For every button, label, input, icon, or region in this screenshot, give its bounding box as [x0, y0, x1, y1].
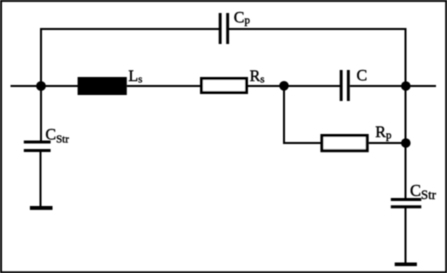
capacitor CStr (right)	[391, 198, 422, 208]
capacitor Cp	[219, 13, 229, 44]
svg-text:C: C	[357, 67, 368, 84]
node B (middle junction)	[279, 81, 289, 91]
wire left node up to top rail	[40, 28, 42, 86]
wire inductor to resistor Rs	[127, 85, 201, 87]
node C (right junction)	[401, 81, 411, 91]
node D (Rp to right rail junction)	[401, 138, 411, 148]
wire lower branch to Rp	[283, 142, 322, 144]
wire top rail left of Cp	[40, 28, 219, 30]
wire left CStr to ground	[40, 152, 42, 207]
wire left node to inductor	[41, 85, 79, 87]
ground (left)	[30, 206, 53, 210]
resistor Rs	[202, 79, 247, 93]
wire right rail down to CStr	[405, 86, 407, 199]
wire top rail down to right node	[405, 28, 407, 86]
ground (right)	[395, 263, 417, 267]
wire top rail right of Cp	[229, 28, 407, 30]
wire middle node to capacitor C	[284, 85, 340, 87]
resistor Rp	[322, 136, 367, 151]
wire Rp to right rail	[369, 142, 406, 144]
wire middle node down	[283, 86, 285, 144]
capacitor CStr (left)	[24, 141, 51, 153]
wire right CStr to ground	[405, 208, 407, 263]
wire Rs to middle node	[248, 85, 284, 87]
wire capacitor C to right node	[350, 85, 406, 87]
wire right output stub	[406, 85, 436, 87]
wire left input stub	[11, 85, 42, 87]
inductor Ls	[78, 77, 127, 95]
capacitor C	[340, 70, 350, 101]
node A (left junction)	[36, 81, 46, 91]
wire left node down to CStr	[40, 86, 42, 141]
